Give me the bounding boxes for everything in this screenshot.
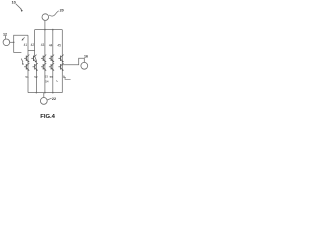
node - Q3 column/top rail junction xyxy=(52,29,54,31)
svg-text:42: 42 xyxy=(31,43,35,47)
node - Q4/bottom rail xyxy=(52,92,54,94)
transistor Q2a xyxy=(34,55,37,58)
svg-text:16: 16 xyxy=(84,54,88,58)
svg-text:54: 54 xyxy=(45,80,49,84)
current source I1 (top circle) xyxy=(42,14,49,21)
transistor Q2b xyxy=(35,63,38,66)
leader arrow from label 10 xyxy=(16,4,22,10)
node - I1/top rail junction xyxy=(44,29,46,31)
node - output tap junction xyxy=(62,64,63,65)
svg-text:44: 44 xyxy=(49,44,53,48)
transistor Q5b xyxy=(61,63,64,66)
node - Q3/bottom rail xyxy=(44,92,46,94)
node - Q2/bottom rail xyxy=(36,92,38,94)
wire - I1 to top rail xyxy=(44,20,46,29)
wire - column Q2 line xyxy=(35,30,37,93)
wire - I2 lower tap to base feed xyxy=(14,42,22,52)
wire - column Q4 line xyxy=(52,30,54,93)
wire - bottom rail xyxy=(28,92,62,94)
svg-text:55: 55 xyxy=(50,75,54,79)
wire - column Q5 line xyxy=(61,30,63,93)
svg-text:52: 52 xyxy=(34,75,38,79)
transistor Q4a xyxy=(51,55,54,58)
leader to label 22 xyxy=(47,98,51,100)
transistor Q3a xyxy=(43,55,46,58)
current source I2 (left circle) xyxy=(3,39,10,46)
svg-text:10: 10 xyxy=(12,1,16,5)
svg-text:41: 41 xyxy=(24,43,28,47)
leader arrow tick at node A xyxy=(23,37,25,39)
svg-text:22: 22 xyxy=(52,97,56,101)
wire - Ib underline xyxy=(65,78,71,80)
svg-text:20: 20 xyxy=(60,9,64,13)
wire - up and over to input column xyxy=(14,35,28,42)
wire - label 12 leader xyxy=(5,36,7,39)
transistor Q3b xyxy=(43,63,46,66)
transistor Q4b xyxy=(51,63,54,66)
svg-text:45: 45 xyxy=(57,44,61,48)
leader arrow to Q1b base xyxy=(21,59,23,63)
wire - column Q3 line xyxy=(44,30,46,93)
svg-text:Ib: Ib xyxy=(63,75,66,80)
transistor Q5a xyxy=(61,55,64,58)
wire - bottom rail to I4 xyxy=(43,93,45,98)
wire - column Q1 line xyxy=(27,35,29,92)
node A xyxy=(13,42,15,44)
wire - top rail xyxy=(35,29,63,31)
wire - output tap xyxy=(62,58,84,64)
svg-text:53: 53 xyxy=(45,75,49,79)
svg-text:FIG.4: FIG.4 xyxy=(40,114,55,120)
leader squiggle to label 20 xyxy=(49,11,59,16)
svg-text:51: 51 xyxy=(25,75,29,79)
svg-text:12: 12 xyxy=(3,32,7,36)
tick near Q5 emitter xyxy=(56,80,57,81)
wire - I2 output xyxy=(10,41,14,43)
current source I4 (bottom circle) xyxy=(40,98,47,105)
svg-text:43: 43 xyxy=(41,43,45,47)
current source I3 (right circle) xyxy=(81,62,88,69)
wire - base tie row A xyxy=(28,50,35,52)
transistor Q1a xyxy=(26,55,29,58)
transistor Q1b xyxy=(26,63,29,66)
